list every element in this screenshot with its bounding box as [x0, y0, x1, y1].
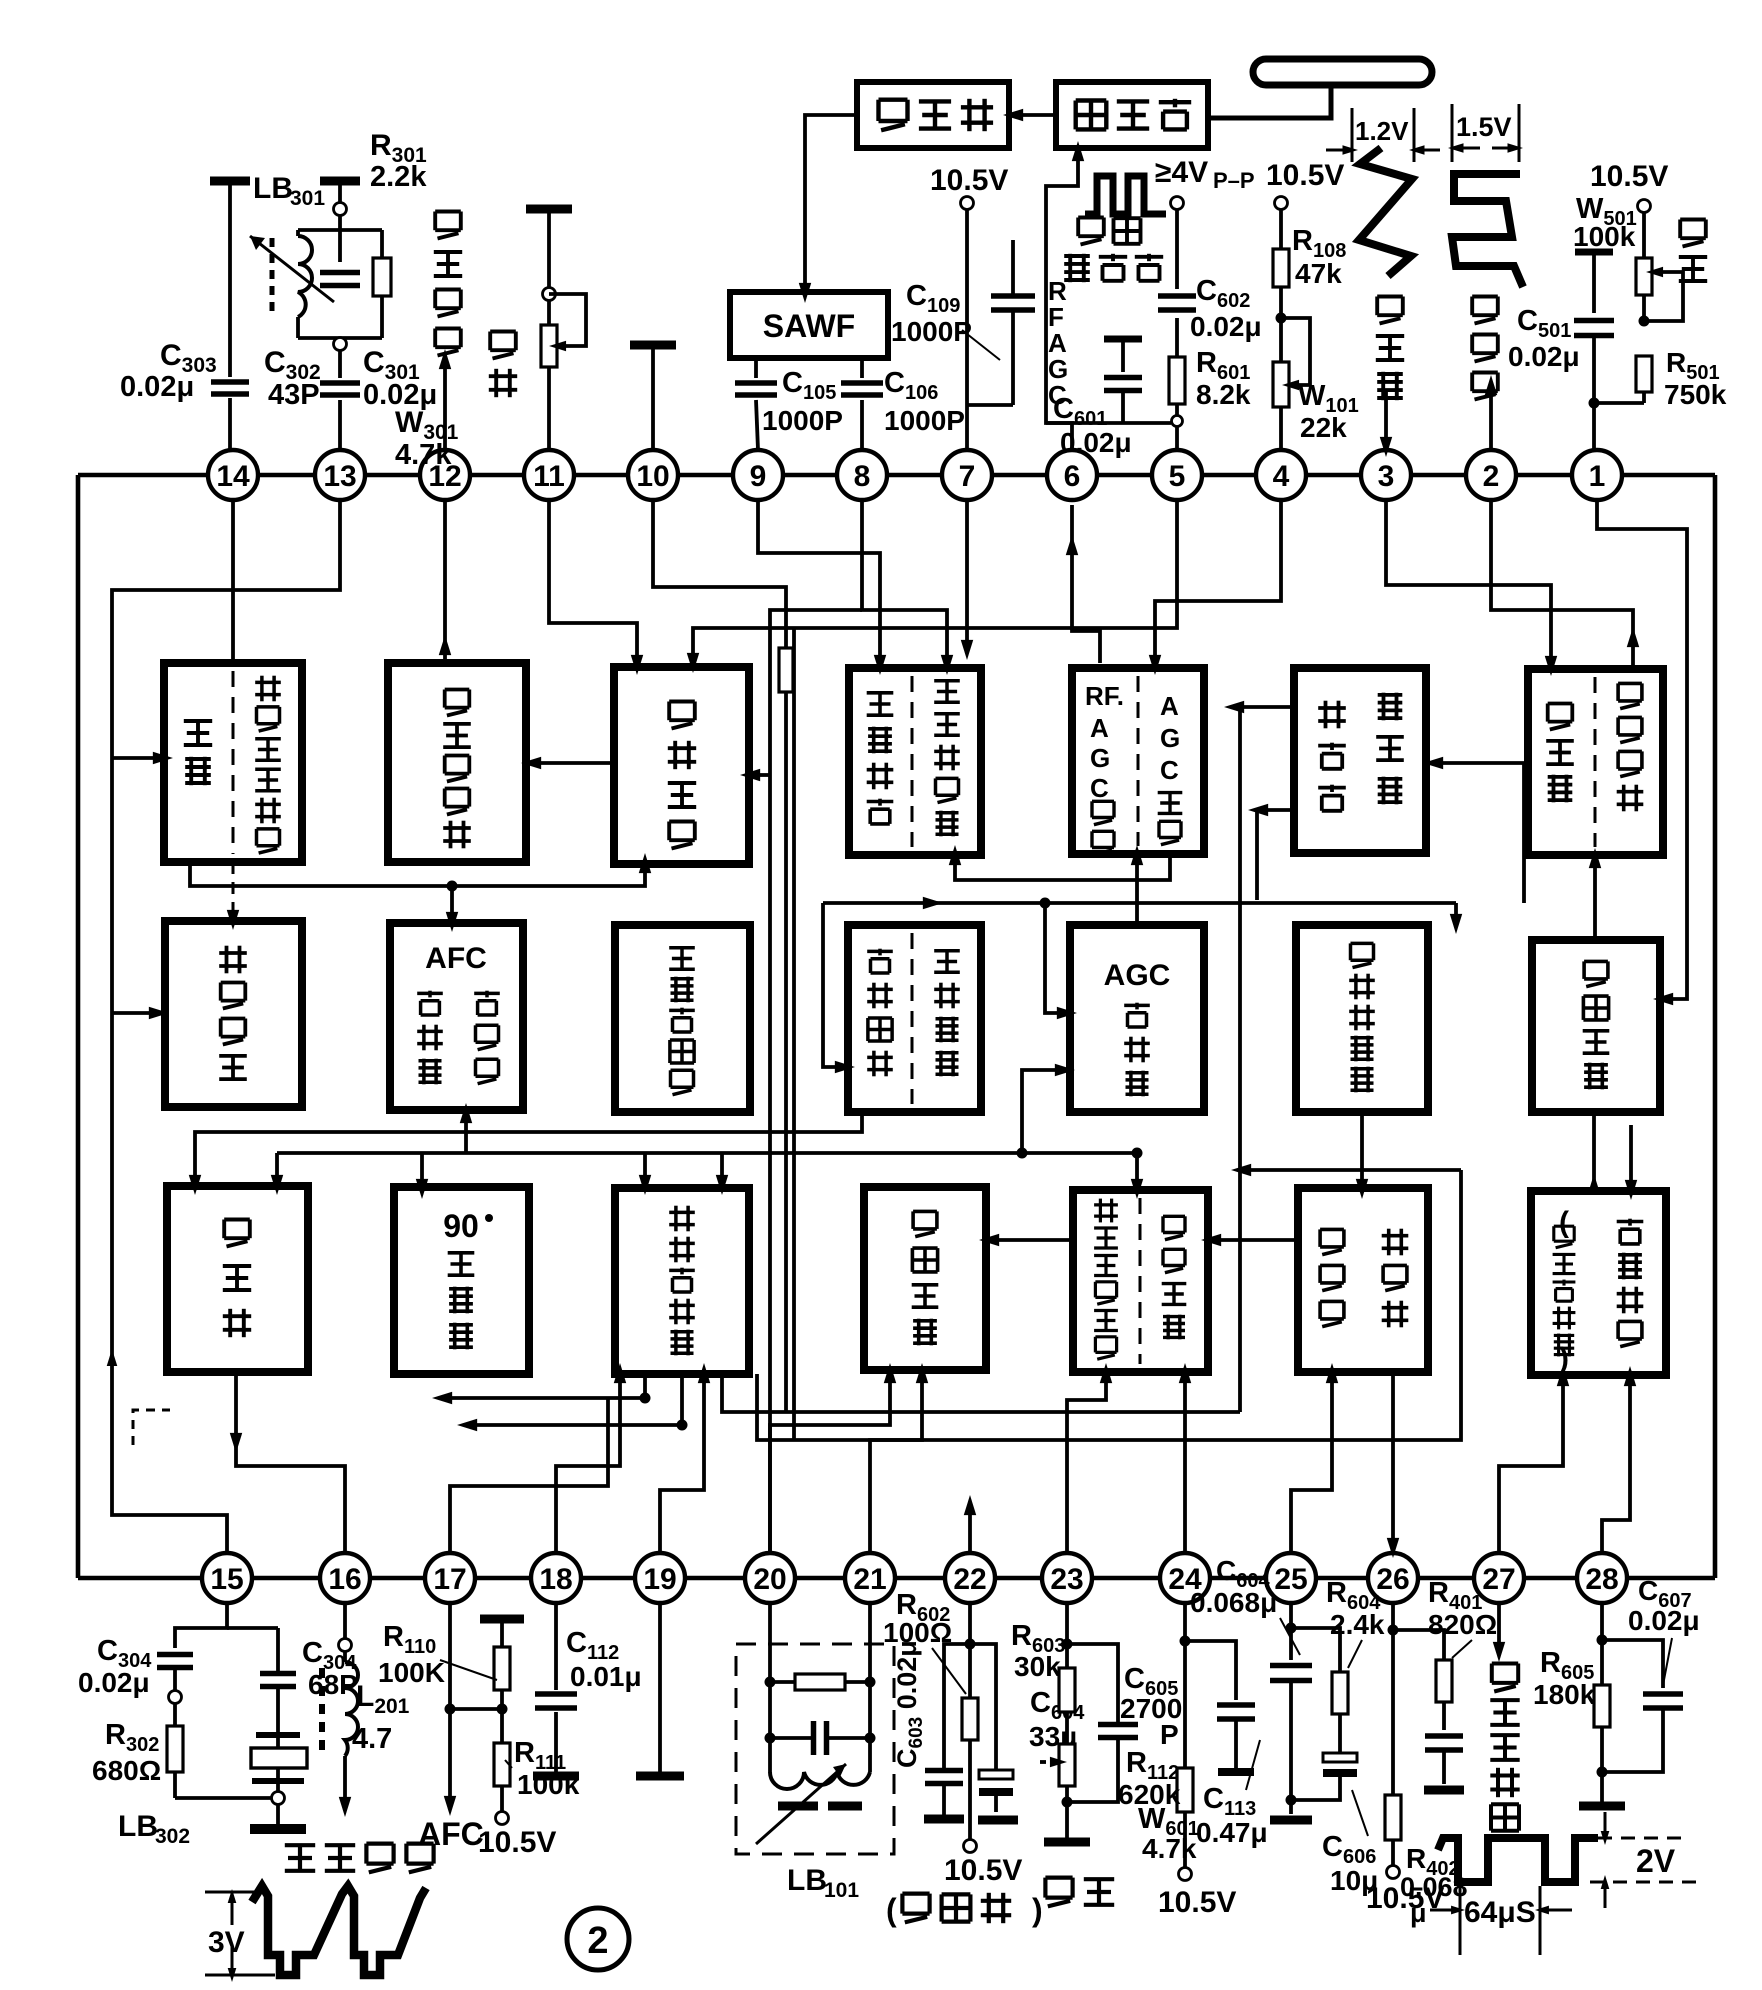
- svg-text:17: 17: [433, 1563, 466, 1596]
- capacitor C113 branch: [1185, 1641, 1255, 1772]
- wire R501 bottom to pin1 line: [1594, 401, 1644, 405]
- wire RF AGC loop to tuner: [1046, 141, 1084, 450]
- svg-text:μ: μ: [1410, 1898, 1427, 1928]
- label line drive excitation (vertical): [1490, 1664, 1519, 1831]
- wire pin4 chain: [1279, 209, 1283, 450]
- wire bus up into AFC block: [460, 1103, 472, 1153]
- pin 26: [1368, 1553, 1418, 1603]
- wire tuner to pre-IF arrow: [1003, 109, 1056, 121]
- wire pin21 riser: [870, 1363, 928, 1553]
- junction pin23 bottom node: [1062, 1797, 1073, 1808]
- capacitor C501 branch: [1574, 252, 1614, 450]
- label C605 2700P: [1120, 1663, 1182, 1750]
- svg-text:680Ω: 680Ω: [92, 1755, 161, 1786]
- wire pre-IF to SAWF: [799, 115, 857, 303]
- wire pin14 to C303: [228, 181, 232, 450]
- label W301 4.7k: [395, 406, 459, 471]
- svg-text:11: 11: [533, 460, 565, 493]
- label C105 1000P: [762, 367, 843, 436]
- svg-text:C: C: [1090, 773, 1109, 803]
- svg-text:2: 2: [1483, 460, 1500, 493]
- wire pin23 riser: [1067, 1363, 1112, 1553]
- label LB301: [253, 172, 325, 210]
- capacitor C602: [1158, 296, 1196, 310]
- wire pin27 arrow down: [1493, 1603, 1505, 1662]
- waveform field output staircase: [1452, 174, 1523, 287]
- pin 1: [1572, 450, 1622, 500]
- pin 9: [733, 450, 783, 500]
- junction C501-R501 node: [1589, 398, 1600, 409]
- svg-text:10.5V: 10.5V: [478, 1826, 556, 1859]
- capacitor C304a 0.02u: [157, 1655, 193, 1668]
- junction pin28 node: [1597, 1635, 1608, 1646]
- wire video preamp to pin16: [230, 1372, 345, 1553]
- label 10.5V pin24: [1158, 1886, 1236, 1919]
- svg-text:A: A: [1090, 713, 1109, 743]
- ground terminal above W301: [526, 205, 572, 214]
- svg-text:18: 18: [539, 1563, 572, 1596]
- svg-text:): ): [1032, 1892, 1043, 1928]
- wire LB101 sides: [770, 1682, 870, 1738]
- resistor small interstage: [779, 648, 793, 692]
- wire sync det to 90deg a: [432, 1374, 651, 1404]
- wire bus down into 90deg: [416, 1153, 428, 1199]
- ground C603: [924, 1815, 964, 1824]
- pin 18: [531, 1553, 581, 1603]
- block volume control: [614, 667, 749, 864]
- svg-text:26: 26: [1376, 1563, 1409, 1596]
- svg-text:301: 301: [290, 187, 325, 210]
- wire SAWF to C105: [754, 358, 758, 378]
- svg-text:1000P: 1000P: [891, 316, 972, 347]
- svg-text:90: 90: [443, 1208, 479, 1244]
- wire W501 chain: [1642, 212, 1646, 403]
- svg-text:1: 1: [1589, 460, 1606, 493]
- svg-text:LB: LB: [253, 172, 293, 205]
- svg-text:1000P: 1000P: [762, 405, 843, 436]
- wire pin17 riser: [450, 1398, 608, 1553]
- wire volume right input: [740, 769, 770, 781]
- label >=4Vp-p: [1155, 156, 1255, 193]
- svg-text:8: 8: [854, 460, 871, 493]
- svg-text:1.2V: 1.2V: [1355, 116, 1409, 146]
- capacitor C604-33u electrolytic: [970, 1644, 1013, 1812]
- wire pin18 down: [554, 1603, 558, 1772]
- block sound FM detector: [165, 921, 302, 1107]
- wire gate pulse output left: [1224, 701, 1294, 1412]
- label C607 0.02u: [1628, 1575, 1700, 1685]
- wire field osc to field feedback: [1589, 848, 1601, 940]
- wire pin14 to feedback block: [231, 500, 235, 663]
- label RFAGC vertical: [1048, 276, 1068, 410]
- label C113 0.47u: [1196, 1740, 1268, 1848]
- block AGC detector: [1070, 925, 1204, 1112]
- svg-text:101: 101: [824, 1879, 859, 1902]
- wire arrow into pin3: [1380, 390, 1392, 457]
- wire pin22 arrow up: [964, 1495, 976, 1553]
- label AFC: [418, 1816, 484, 1852]
- label R302 680ohm: [92, 1719, 161, 1786]
- wire gate pulse output left 2: [1248, 804, 1294, 900]
- block feedback loop / IF amplifier: [849, 668, 981, 855]
- block tuner (RF head): [1056, 82, 1208, 148]
- IC boundary (chip outline through pins): [78, 475, 1715, 1578]
- wire AGC det down to line AFC: [1131, 1153, 1143, 1199]
- svg-text:2V: 2V: [1636, 1843, 1676, 1879]
- wire pin23 gnd: [1065, 1802, 1069, 1838]
- block SAWF: [730, 292, 888, 358]
- block AFC (auto freq control) / line phase detector: [1073, 1190, 1208, 1372]
- wire line AFC to line osc: [979, 1234, 1073, 1246]
- label LB302: [118, 1810, 190, 1848]
- svg-text:10: 10: [636, 460, 669, 493]
- svg-text:9: 9: [750, 460, 767, 493]
- label C302 43P: [264, 346, 321, 411]
- label R111 100k: [505, 1737, 580, 1800]
- label 10.5V under R111: [478, 1826, 556, 1859]
- wire pin17 down: [448, 1603, 452, 1709]
- pin 20: [745, 1553, 795, 1603]
- svg-text:P–P: P–P: [1213, 168, 1255, 193]
- resistor LB101: [770, 1674, 870, 1690]
- block pre-IF amplifier: [857, 82, 1009, 148]
- capacitor C302: [320, 273, 360, 286]
- wire pin15 elbow: [175, 1603, 278, 1648]
- waveform video sawtooth: [252, 1886, 426, 1975]
- resistor R401: [1436, 1660, 1452, 1702]
- capacitor C109: [967, 240, 1035, 405]
- ground terminal above LB301: [320, 177, 360, 186]
- resistor R110: [494, 1647, 510, 1690]
- wire bus into video preamp 2: [271, 1153, 283, 1195]
- terminal 10.5V pin22: [964, 1840, 977, 1853]
- wire bus y903: [823, 897, 1456, 909]
- block anti-interference circuit: [615, 925, 750, 1112]
- svg-text:LB: LB: [787, 1864, 827, 1897]
- resistor R108: [1273, 249, 1289, 287]
- pin 8: [837, 450, 887, 500]
- label C602 0.02u: [1190, 275, 1262, 342]
- svg-text:20: 20: [753, 1563, 786, 1596]
- pin 13: [315, 450, 365, 500]
- block AFC detector and output: [390, 923, 523, 1110]
- pin 6: [1047, 450, 1097, 500]
- wire volume to audio output stage: [521, 757, 614, 769]
- capacitor C303: [211, 382, 249, 394]
- wire bus y1153: [277, 1148, 1143, 1159]
- wire lowpass to video preamp: [189, 1112, 862, 1195]
- node LB301 top: [334, 203, 347, 216]
- svg-text:4.7k: 4.7k: [1142, 1833, 1197, 1864]
- pin 25: [1266, 1553, 1316, 1603]
- svg-text:0.02μ: 0.02μ: [120, 371, 194, 403]
- svg-text:30k: 30k: [1014, 1651, 1061, 1682]
- wire pin6 from RF AGC output: [1066, 505, 1100, 663]
- branch R604 C606: [1291, 1628, 1357, 1800]
- ceramic filter LB302: [251, 1735, 307, 1792]
- label C603 0.02u vertical: [892, 1640, 927, 1768]
- wire C603 to gnd: [942, 1785, 946, 1815]
- label field feedback (vertical): [1376, 297, 1404, 401]
- pin 27: [1474, 1553, 1524, 1603]
- wire pin28 riser: [1602, 1366, 1636, 1553]
- svg-text:2.4k: 2.4k: [1330, 1609, 1385, 1640]
- svg-text:2.2k: 2.2k: [370, 161, 427, 193]
- svg-text:620k: 620k: [1118, 1779, 1181, 1810]
- wire C601 bottom bus: [1046, 421, 1171, 425]
- svg-text:5: 5: [1169, 460, 1186, 493]
- wire field sync to line output: [1356, 1112, 1368, 1199]
- wire pin7 vertical: [965, 209, 969, 450]
- ground R401 branch: [1424, 1786, 1464, 1795]
- block field feedback / field output stage: [1528, 669, 1663, 855]
- waveform field feedback sawtooth: [1359, 148, 1412, 276]
- block sync detector: [615, 1188, 749, 1374]
- junction pin17 node: [445, 1704, 456, 1715]
- svg-text:AGC: AGC: [1104, 959, 1171, 992]
- wire pin24 riser: [1179, 1363, 1191, 1553]
- block field oscillator: [1532, 940, 1660, 1112]
- resistor R602: [962, 1644, 978, 1840]
- resistor R111: [494, 1743, 510, 1786]
- wire pin13 long left feedback path: [107, 500, 340, 1553]
- resistor R605: [1594, 1640, 1610, 1802]
- wire audio output arrow up from pin12: [439, 349, 451, 450]
- dashed box LB101: [736, 1644, 894, 1854]
- wire small resistor continues down: [784, 692, 788, 1412]
- wire pin12 from audio output stage: [439, 500, 451, 663]
- resistor R604: [1332, 1672, 1348, 1714]
- block feedback / sound IF amp: [164, 663, 302, 862]
- wire AGC det to AGC control: [1131, 845, 1143, 923]
- dims 2V: [1590, 1812, 1700, 1908]
- wire gnd to pin10: [651, 345, 655, 450]
- resistor R603: [1059, 1644, 1075, 1744]
- wire pin20 riser: [770, 1363, 896, 1553]
- svg-text:0.02μ: 0.02μ: [1060, 427, 1132, 458]
- svg-text:LB: LB: [118, 1810, 158, 1843]
- label C604 33u: [1029, 1687, 1085, 1752]
- wire SAWF to C106: [860, 358, 864, 378]
- junction W501 wiper node: [1639, 316, 1650, 327]
- resistor R302: [167, 1726, 183, 1772]
- label R501 750k: [1664, 347, 1727, 410]
- svg-text:47k: 47k: [1295, 258, 1342, 289]
- ground above R110: [480, 1615, 524, 1624]
- block audio output stage: [388, 663, 526, 862]
- svg-text:22k: 22k: [1300, 412, 1347, 443]
- pin 4: [1256, 450, 1306, 500]
- wire bus down into sync det 2: [716, 1153, 728, 1195]
- svg-text:RF.: RF.: [1085, 681, 1124, 711]
- wire R302 to bottom node: [175, 1772, 272, 1798]
- junction LB101 r1: [765, 1677, 876, 1688]
- ground LB302: [250, 1824, 306, 1834]
- label C106 1000P: [884, 367, 965, 436]
- wire pin9 to feedback loop block: [758, 500, 886, 675]
- svg-text:1000P: 1000P: [884, 405, 965, 436]
- svg-text:100K: 100K: [378, 1657, 445, 1688]
- label field frequency (vertical): [1679, 220, 1707, 282]
- pin 24: [1160, 1553, 1210, 1603]
- node pin16: [339, 1603, 352, 1652]
- pin 19: [635, 1553, 685, 1603]
- label C501 0.02u: [1508, 305, 1580, 372]
- junction pin22 node: [965, 1639, 976, 1650]
- capacitor C605 branch: [1067, 1644, 1138, 1802]
- pin 5: [1152, 450, 1202, 500]
- svg-text:0.01μ: 0.01μ: [570, 1661, 642, 1692]
- svg-text:19: 19: [643, 1563, 676, 1596]
- label field output (vertical): [1472, 297, 1498, 400]
- wire gate line bus: [1231, 1164, 1461, 1176]
- wire R110 chain: [450, 1619, 502, 1812]
- terminal W501 top: [1638, 200, 1651, 213]
- wire pin1 to field oscillator: [1597, 501, 1687, 1005]
- block RF AGC output / AGC control: [1072, 668, 1204, 855]
- svg-text:2: 2: [587, 1920, 608, 1962]
- terminal 10.5V pin24: [1179, 1868, 1192, 1881]
- wire long bus H2: [757, 1170, 1461, 1440]
- wire pin5 chain: [1175, 209, 1179, 450]
- marker 1.5V: [1448, 104, 1523, 162]
- wire pin19 riser: [660, 1363, 710, 1553]
- pin 17: [425, 1553, 475, 1603]
- label C601 0.02u: [1053, 393, 1132, 458]
- wire arrow up from pin2: [1485, 375, 1497, 450]
- svg-text:68P: 68P: [308, 1669, 358, 1700]
- pin 10: [628, 450, 678, 500]
- ground terminal above C303: [210, 177, 250, 186]
- wire stub into sound FM detector left: [112, 1007, 169, 1019]
- svg-text:≥4V: ≥4V: [1155, 156, 1208, 189]
- block video preamp: [167, 1186, 308, 1372]
- svg-text:10.5V: 10.5V: [1266, 159, 1344, 192]
- capacitor LB101: [770, 1721, 870, 1755]
- label line frequency: [1045, 1878, 1114, 1907]
- svg-text:AFC: AFC: [418, 1816, 484, 1852]
- svg-text:21: 21: [853, 1563, 886, 1596]
- wire pin25 down: [1289, 1603, 1293, 1628]
- svg-text:15: 15: [210, 1563, 243, 1596]
- terminal pin4 top: [1275, 197, 1288, 210]
- label C606 10u: [1322, 1790, 1378, 1896]
- wire line output to phase det: [1201, 1234, 1298, 1246]
- svg-text:3: 3: [1378, 460, 1395, 493]
- node below C304a: [169, 1691, 182, 1704]
- label R301 2.2k: [370, 129, 427, 193]
- label 10.5V at pin4: [1266, 159, 1344, 192]
- wire pin19 down: [658, 1603, 662, 1772]
- label R110 100K: [378, 1621, 497, 1688]
- wire LB101 to coil: [770, 1738, 870, 1772]
- pin 15: [202, 1553, 252, 1603]
- svg-text:SAWF: SAWF: [763, 308, 855, 344]
- svg-text:10.5V: 10.5V: [930, 164, 1008, 197]
- capacitor C607 branch: [1602, 1640, 1683, 1772]
- capacitor C112: [535, 1694, 577, 1708]
- branch R401 cap: [1393, 1630, 1463, 1784]
- pin 22: [945, 1553, 995, 1603]
- capacitor C603: [925, 1771, 963, 1784]
- wire node to R302: [173, 1703, 177, 1726]
- svg-text:750k: 750k: [1664, 379, 1727, 410]
- terminal 10.5V pin7: [961, 197, 974, 210]
- wire bus left into lowpass: [823, 903, 855, 1073]
- svg-text:13: 13: [323, 460, 356, 493]
- wire node to C301: [338, 350, 342, 378]
- svg-text:25: 25: [1274, 1563, 1307, 1596]
- block line oscillator: [864, 1187, 986, 1370]
- svg-text:0.02μ: 0.02μ: [78, 1667, 150, 1698]
- svg-text:4.7k: 4.7k: [395, 439, 452, 471]
- potentiometer W601: [1040, 1744, 1075, 1786]
- svg-text:0.068μ: 0.068μ: [1190, 1587, 1277, 1618]
- svg-text:AFC: AFC: [425, 942, 487, 975]
- svg-text:G: G: [1090, 743, 1110, 773]
- wire pin7 arrow down: [961, 500, 973, 660]
- svg-text:10.5V: 10.5V: [944, 1854, 1022, 1887]
- resistor R112: [1177, 1641, 1193, 1868]
- label 10.5V pin26: [1366, 1882, 1444, 1915]
- label video output: [285, 1844, 434, 1873]
- wire sound IF to volume bottom bus: [190, 853, 651, 892]
- pin 16: [320, 1553, 370, 1603]
- junction R110 node: [497, 1704, 508, 1715]
- label 10.5V at pin7: [930, 164, 1008, 197]
- svg-text:302: 302: [155, 1825, 190, 1848]
- junction pin4 node: [1276, 313, 1287, 324]
- wire W301 to pin11: [547, 367, 551, 450]
- svg-text:(: (: [1559, 1206, 1569, 1239]
- resistor R402: [1385, 1630, 1401, 1866]
- wire AGC control to IF amp bottom: [949, 845, 1170, 880]
- wire gate pulse into generator right: [1423, 757, 1524, 903]
- svg-text:100Ω: 100Ω: [883, 1617, 952, 1648]
- label L201 4.7: [352, 1680, 410, 1755]
- capacitor C106: [841, 383, 883, 395]
- wire pin4 to AGC control: [1149, 501, 1281, 675]
- pin 14: [208, 450, 258, 500]
- ground pin23: [1044, 1838, 1090, 1847]
- junction pin25 node: [1286, 1623, 1297, 1634]
- label line power supply: [886, 1892, 1043, 1928]
- ground pin28: [1579, 1802, 1625, 1811]
- junction pin23 node: [1062, 1639, 1073, 1650]
- label C604 0.068u: [1190, 1555, 1300, 1655]
- label R108 47k: [1292, 225, 1346, 289]
- wire field osc to noise amp2: [1625, 1125, 1637, 1200]
- svg-text:27: 27: [1482, 1563, 1515, 1596]
- marker 1.2V: [1326, 108, 1440, 162]
- wire pin26 down: [1391, 1603, 1395, 1630]
- wire stub into feedback block left: [112, 752, 173, 764]
- wire gnd to W301: [547, 209, 551, 288]
- block lowpass filter / sync separator: [848, 925, 981, 1112]
- wire phase det up to AGC det left: [1017, 1064, 1076, 1159]
- wire pin25 riser: [1291, 1363, 1338, 1553]
- wire video output arrow: [339, 1756, 351, 1817]
- wire pin21 into LB101: [868, 1603, 872, 1682]
- svg-text:A: A: [1160, 691, 1179, 721]
- block 90 deg phase shifter: [394, 1187, 529, 1374]
- pin 3: [1361, 450, 1411, 500]
- svg-text:0.47μ: 0.47μ: [1196, 1817, 1268, 1848]
- svg-text:0.02μ: 0.02μ: [1628, 1605, 1700, 1636]
- wire pin24 down: [1183, 1603, 1187, 1641]
- pin 21: [845, 1553, 895, 1603]
- svg-text:6: 6: [1064, 460, 1081, 493]
